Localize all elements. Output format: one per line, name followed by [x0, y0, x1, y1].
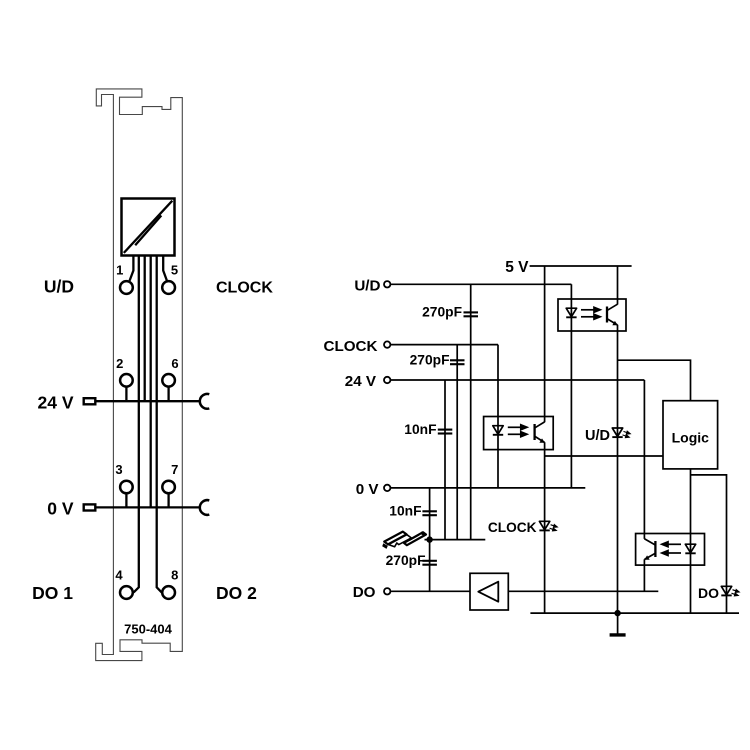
suppression column wire	[429, 488, 431, 591]
svg-text:U/D: U/D	[354, 277, 380, 294]
svg-text:270pF: 270pF	[410, 353, 450, 368]
svg-text:5 V: 5 V	[505, 259, 529, 276]
pin 2 stub	[125, 387, 127, 401]
capacitor C3 10nF plates	[438, 430, 453, 434]
pin 6	[162, 374, 175, 387]
pin 6 stub	[167, 387, 169, 401]
optocoupler U1 coupling arrows	[581, 307, 600, 319]
optocoupler U2 phototransistor	[535, 422, 545, 443]
0V field terminal square	[84, 504, 96, 510]
optocoupler U3 coupling arrows	[662, 542, 681, 556]
optocoupler U1 box	[558, 299, 626, 331]
ground bus	[530, 612, 739, 614]
wire U2 emitter to logic left	[545, 455, 663, 457]
optocoupler U2 LED	[493, 426, 503, 435]
svg-text:6: 6	[171, 356, 178, 371]
pin 7 stub	[167, 494, 169, 508]
wire U1 emitter to logic	[618, 360, 691, 401]
svg-text:3: 3	[115, 462, 122, 477]
svg-text:CLOCK: CLOCK	[488, 520, 537, 535]
svg-text:270pF: 270pF	[386, 553, 426, 568]
wire 5V rail	[530, 265, 632, 267]
svg-text:8: 8	[171, 567, 178, 582]
wire U3 emitter to DO line	[643, 559, 645, 591]
wire U1 collector to 5V	[617, 266, 619, 305]
wire 24V input line	[390, 379, 644, 381]
svg-text:10nF: 10nF	[404, 422, 436, 437]
24V field terminal square	[84, 398, 96, 404]
svg-text:4: 4	[115, 567, 123, 582]
wire logic to DO status LED branch	[691, 475, 727, 613]
capacitor C4 10nF plates	[422, 511, 437, 515]
optocoupler U1 LED	[566, 308, 576, 317]
pin 2	[120, 374, 133, 387]
svg-text:CLOCK: CLOCK	[216, 280, 273, 297]
optocoupler U3 box	[636, 534, 705, 566]
0V bus continuation arc	[200, 500, 209, 515]
module 750-404 outline	[96, 89, 183, 661]
wire bundle B	[144, 256, 146, 402]
logic box	[663, 401, 718, 469]
terminal 24V	[384, 377, 390, 383]
output buffer triangle	[478, 582, 498, 602]
svg-text:U/D: U/D	[44, 277, 74, 297]
wire logic bottom to U3 LED and ground	[690, 469, 692, 613]
suppression rail	[425, 539, 486, 541]
svg-text:7: 7	[171, 462, 178, 477]
0V field bus wire	[97, 506, 201, 508]
wire U2 emitter chain to ground bus	[544, 442, 546, 613]
pin 3	[120, 481, 133, 494]
svg-text:Logic: Logic	[672, 430, 710, 446]
svg-text:0 V: 0 V	[47, 499, 74, 519]
svg-text:CLOCK: CLOCK	[324, 338, 378, 355]
optocoupler U1 input LED wire	[570, 284, 572, 488]
svg-text:24 V: 24 V	[38, 393, 74, 413]
svg-text:10nF: 10nF	[389, 504, 421, 519]
wire U1 emitter chain to ground bus	[617, 325, 619, 613]
wire bundle C	[150, 256, 152, 508]
wire DO input line	[390, 590, 470, 592]
terminal CLOCK	[384, 341, 390, 347]
capacitor C5 270pF plates	[422, 561, 437, 565]
wire CLOCK input line	[390, 344, 498, 346]
svg-text:DO 2: DO 2	[216, 583, 257, 603]
terminal U/D	[384, 281, 390, 287]
U/D status LED	[612, 428, 630, 438]
pin 3 stub	[125, 494, 127, 508]
ground symbol	[617, 613, 619, 633]
24V field bus wire	[97, 400, 201, 402]
svg-text:0 V: 0 V	[356, 481, 380, 498]
wire block to pin 1	[130, 256, 134, 281]
svg-text:5: 5	[171, 262, 178, 277]
optocoupler U3 output transistor	[644, 539, 655, 560]
24V bus continuation arc	[200, 394, 209, 409]
optocoupler U2 box	[484, 417, 554, 450]
svg-text:2: 2	[116, 356, 123, 371]
wire U2 collector to 5V	[544, 266, 546, 422]
pin 4	[120, 586, 133, 599]
wire block to pin 5	[163, 256, 167, 281]
capacitor C3 10nF drop wire	[444, 380, 446, 540]
capacitor C1 270pF plates	[464, 312, 479, 316]
optocoupler U2 input LED wire	[497, 345, 499, 488]
svg-text:1: 1	[116, 262, 123, 277]
optocoupler U3 LED	[685, 544, 695, 553]
svg-text:270pF: 270pF	[422, 305, 462, 320]
24V drop to output transistor	[643, 380, 645, 539]
svg-text:DO 1: DO 1	[32, 583, 73, 603]
svg-text:DO: DO	[353, 584, 376, 601]
terminal 0V	[384, 485, 390, 491]
output buffer box	[470, 573, 508, 610]
wire bundle D	[157, 256, 162, 593]
wire U/D input line	[390, 283, 571, 285]
svg-text:DO: DO	[698, 585, 719, 601]
pin 8	[162, 586, 175, 599]
optocoupler U2 coupling arrows	[508, 425, 527, 437]
capacitor C2 270pF drop wire	[456, 345, 458, 540]
optocoupler U1 phototransistor	[607, 304, 618, 325]
pin 1	[120, 281, 133, 294]
DO status LED	[721, 586, 739, 596]
wire bundle A	[134, 256, 139, 593]
wire 0V input line	[390, 487, 585, 489]
capacitor C2 270pF plates	[450, 360, 465, 364]
svg-text:24 V: 24 V	[345, 373, 377, 390]
terminal DO	[384, 588, 390, 594]
pin 5	[162, 281, 175, 294]
junction dot suppression rail	[426, 536, 432, 542]
svg-text:750-404: 750-404	[124, 622, 172, 637]
pin 7	[162, 481, 175, 494]
svg-text:U/D: U/D	[585, 428, 610, 444]
DIN rail icon	[382, 531, 426, 549]
capacitor C1 270pF drop wire	[470, 284, 472, 539]
wire DO output line	[508, 590, 658, 592]
function block symbol	[122, 199, 175, 256]
junction dot ground bus	[614, 610, 620, 616]
CLOCK status LED	[539, 521, 557, 531]
